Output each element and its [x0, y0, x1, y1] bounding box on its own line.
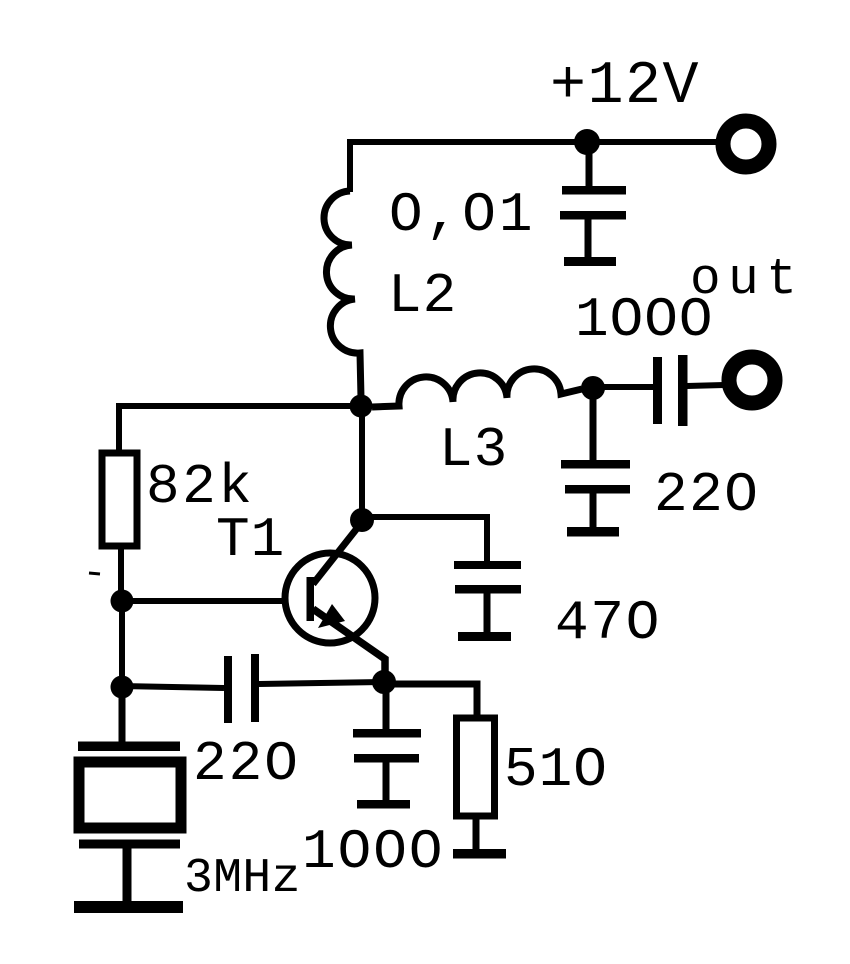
wire node C down to crystal [119, 687, 126, 743]
crystal X1 body [79, 762, 181, 828]
svg-text:O,O1: O,O1 [389, 183, 535, 247]
svg-text:L2: L2 [388, 264, 457, 328]
ground bar C 0,01 [564, 257, 616, 266]
wire node F down to C 220 [590, 388, 597, 462]
wire node F to C 1000 series [593, 384, 653, 390]
wire node D to R 510 [384, 684, 477, 720]
capacitor C 1000 bottom lead [383, 762, 390, 802]
terminal out ring [729, 357, 775, 403]
wire left corner down to R 82k [116, 403, 122, 455]
crystal X1 lead to ground [123, 848, 132, 903]
wire node C to series C 220 [122, 686, 224, 688]
inductor L2 [324, 191, 361, 398]
wire top rail from L2 corner to +12V terminal [348, 139, 718, 145]
wire node G down to C 0,01 [586, 142, 593, 189]
capacitor C 470 plate 1 [454, 561, 521, 569]
transistor T1 emitter diagonal [313, 609, 385, 675]
svg-text:22O: 22O [193, 732, 300, 796]
svg-text:47O: 47O [555, 591, 661, 655]
ground bar C 1000 bottom [357, 800, 410, 809]
node C crystal node [111, 676, 134, 699]
node A junction L2/L3/base rail [350, 395, 373, 418]
wire series C 220 to node D [259, 682, 384, 684]
capacitor C 470 plate 2 [455, 585, 521, 594]
wire R 82k to node B [118, 546, 124, 601]
wire node D down to C 1000 bottom [383, 682, 390, 731]
ground bar C 220 [567, 527, 619, 537]
resistor R 82k [102, 453, 137, 546]
svg-text:+12V: +12V [550, 53, 700, 121]
node G +12V junction [574, 129, 600, 155]
capacitor C 0,01 plate 2 [560, 211, 626, 220]
crystal X1 top plate [78, 742, 180, 752]
node B base node [111, 590, 134, 613]
wire node E to C 470 [362, 517, 487, 563]
inductor L3 [372, 369, 582, 407]
capacitor C 1000 bottom plate 2 [354, 754, 419, 763]
node E collector junction [350, 508, 374, 532]
capacitor C 0,01 plate 1 [562, 186, 626, 195]
series capacitor C 220 base plate 2 [251, 654, 259, 722]
wire node A down to collector node E [359, 406, 365, 520]
wire node B down to node C [119, 601, 125, 687]
terminal +12V ring [723, 121, 769, 167]
svg-text:51O: 51O [504, 738, 608, 802]
capacitor C 220 plate 1 [561, 460, 630, 469]
crystal X1 bottom plate [79, 840, 180, 849]
transistor T1 base bar [307, 577, 315, 621]
resistor R 510 [457, 718, 495, 816]
capacitor C 1000 series plate 2 [678, 355, 688, 426]
wire R 510 to ground [473, 816, 480, 851]
capacitor C 0,01 lead [585, 219, 592, 259]
ground bar crystal [74, 901, 183, 913]
svg-text:out: out [690, 252, 804, 309]
capacitor C 470 lead [484, 593, 491, 634]
ground bar C 470 [458, 632, 511, 641]
transistor T1 circle [285, 553, 375, 643]
svg-text:22O: 22O [654, 463, 759, 527]
ground bar R 510 [453, 849, 506, 859]
transistor T1 emitter arrow [318, 604, 345, 628]
wire corner down to L2 top [347, 139, 353, 192]
svg-text:T1: T1 [216, 508, 285, 572]
capacitor C 220 lead [590, 493, 597, 529]
stray mark [89, 573, 100, 574]
wire node A to left rail [119, 403, 361, 409]
svg-text:L3: L3 [439, 418, 508, 482]
capacitor C 1000 bottom plate 1 [353, 729, 421, 738]
transistor T1 collector diagonal [313, 522, 362, 584]
capacitor C 1000 series plate 1 [653, 357, 662, 424]
node D emitter node [372, 670, 396, 694]
svg-text:1OOO: 1OOO [302, 820, 444, 884]
wire C 1000 series to out terminal [687, 385, 724, 386]
wire base from node B to T1 [122, 598, 308, 604]
svg-text:3MHz: 3MHz [184, 852, 301, 906]
series capacitor C 220 base plate 1 [224, 656, 232, 723]
capacitor C 220 plate 2 [565, 485, 630, 494]
node F output node [581, 376, 605, 400]
